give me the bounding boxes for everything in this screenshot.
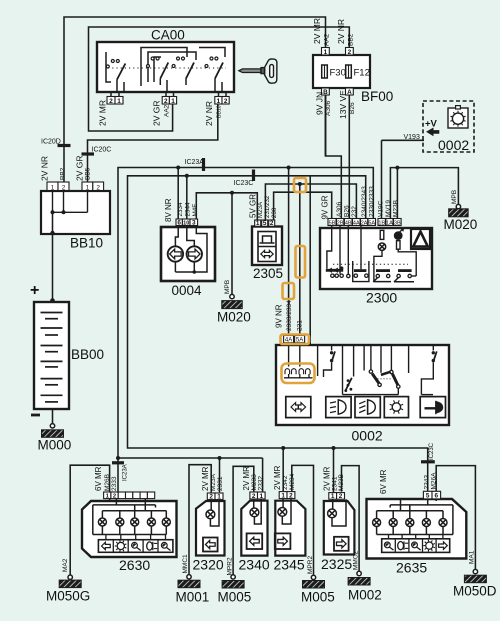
svg-text:BF00: BF00 <box>361 89 393 104</box>
svg-text:+V: +V <box>425 119 438 130</box>
svg-text:2V GR: 2V GR <box>152 100 162 126</box>
svg-text:MPR2: MPR2 <box>307 556 314 574</box>
svg-text:5B: 5B <box>329 220 336 226</box>
svg-text:BB5: BB5 <box>85 167 92 180</box>
svg-text:2334: 2334 <box>177 202 184 217</box>
svg-text:MV19: MV19 <box>385 200 392 217</box>
svg-text:2635: 2635 <box>396 560 427 576</box>
svg-text:8V NR: 8V NR <box>164 198 173 222</box>
svg-text:MA2: MA2 <box>62 558 69 572</box>
svg-text:B26: B26 <box>344 205 351 217</box>
svg-text:IC23C: IC23C <box>234 180 254 187</box>
svg-text:2B: 2B <box>337 220 344 226</box>
svg-text:2320: 2320 <box>193 557 224 573</box>
svg-text:M23B: M23B <box>393 200 400 217</box>
svg-text:M050G: M050G <box>46 589 90 604</box>
svg-text:5A: 5A <box>368 220 375 226</box>
svg-text:2A: 2A <box>361 220 368 226</box>
svg-text:M020: M020 <box>217 310 251 325</box>
svg-text:232: 232 <box>351 206 358 217</box>
svg-text:6V MR: 6V MR <box>379 469 388 494</box>
svg-text:231: 231 <box>297 320 304 331</box>
svg-text:5: 5 <box>263 220 267 227</box>
svg-text:V19C: V19C <box>378 200 385 217</box>
svg-text:M050D: M050D <box>453 584 497 599</box>
svg-text:6: 6 <box>177 219 181 226</box>
svg-text:M26A: M26A <box>431 472 438 490</box>
svg-text:2325: 2325 <box>321 556 352 572</box>
svg-text:231/232: 231/232 <box>264 195 271 218</box>
svg-text:1: 1 <box>217 98 221 105</box>
svg-text:2333/2334: 2333/2334 <box>286 300 293 331</box>
svg-text:2: 2 <box>96 184 100 191</box>
svg-text:2343: 2343 <box>424 475 431 490</box>
svg-text:1: 1 <box>281 492 285 499</box>
svg-text:2: 2 <box>289 492 293 499</box>
svg-text:+: + <box>30 282 39 299</box>
svg-text:6V MR: 6V MR <box>94 466 103 491</box>
svg-text:MPB: MPB <box>224 280 231 294</box>
svg-text:9V NR: 9V NR <box>275 304 284 328</box>
svg-text:IC20D: IC20D <box>41 139 61 146</box>
svg-text:0004: 0004 <box>172 283 203 298</box>
svg-text:2V GR: 2V GR <box>75 155 85 181</box>
svg-text:2: 2 <box>270 220 274 227</box>
svg-text:M23A: M23A <box>257 201 264 218</box>
svg-text:2331: 2331 <box>217 476 224 491</box>
svg-text:2: 2 <box>109 98 113 105</box>
svg-text:BB2: BB2 <box>348 33 355 46</box>
svg-text:1: 1 <box>256 220 260 227</box>
svg-text:BB2: BB2 <box>60 167 67 180</box>
svg-text:4A: 4A <box>353 220 360 226</box>
svg-text:2V NR: 2V NR <box>336 19 346 44</box>
svg-text:6: 6 <box>435 493 439 500</box>
svg-text:IC23A: IC23A <box>185 159 205 166</box>
svg-text:5: 5 <box>426 493 430 500</box>
svg-text:2: 2 <box>348 49 352 56</box>
svg-text:IC20C: IC20C <box>92 147 112 154</box>
svg-text:MMC1: MMC1 <box>182 554 189 574</box>
svg-text:A306: A306 <box>336 201 343 217</box>
svg-text:2: 2 <box>164 98 168 105</box>
svg-text:1: 1 <box>260 493 264 500</box>
svg-text:2V MR: 2V MR <box>98 100 108 126</box>
svg-text:9V GR: 9V GR <box>321 195 330 219</box>
svg-text:2630: 2630 <box>119 557 150 573</box>
svg-text:MPB: MPB <box>451 190 458 204</box>
svg-text:2332: 2332 <box>258 476 265 491</box>
svg-text:1: 1 <box>86 184 90 191</box>
svg-text:IC23C: IC23C <box>429 442 435 460</box>
svg-text:2V MR: 2V MR <box>201 466 210 491</box>
svg-text:10: 10 <box>183 220 189 226</box>
svg-text:F30: F30 <box>330 68 346 79</box>
svg-text:2V MR: 2V MR <box>242 466 251 491</box>
svg-text:M234: M234 <box>289 473 296 490</box>
svg-text:1: 1 <box>171 98 175 105</box>
svg-text:MA1: MA1 <box>469 550 476 564</box>
svg-text:BB10: BB10 <box>217 105 223 118</box>
svg-text:2: 2 <box>62 184 66 191</box>
svg-text:3: 3 <box>192 219 196 226</box>
svg-text:F12: F12 <box>354 68 370 79</box>
svg-text:2345: 2345 <box>274 557 305 573</box>
svg-text:2V MR: 2V MR <box>323 466 332 491</box>
svg-text:BB00: BB00 <box>71 347 104 362</box>
svg-text:M005: M005 <box>218 590 252 605</box>
svg-text:1A: 1A <box>386 220 393 226</box>
svg-text:M000: M000 <box>38 438 72 453</box>
svg-text:M002: M002 <box>348 588 382 603</box>
svg-text:2300: 2300 <box>366 290 397 306</box>
svg-text:2: 2 <box>252 493 256 500</box>
svg-text:230: 230 <box>271 207 278 218</box>
svg-text:2V NR: 2V NR <box>204 101 214 126</box>
svg-text:2340: 2340 <box>239 557 270 573</box>
svg-text:2V MR: 2V MR <box>273 465 282 490</box>
svg-text:2305: 2305 <box>253 266 283 281</box>
svg-text:2: 2 <box>113 493 116 499</box>
svg-text:13V VE: 13V VE <box>338 90 348 119</box>
svg-text:1: 1 <box>324 49 328 56</box>
svg-text:1: 1 <box>331 493 335 500</box>
svg-text:MPR2: MPR2 <box>226 557 233 575</box>
svg-text:1B: 1B <box>378 220 385 226</box>
svg-text:M23B: M23B <box>338 474 345 491</box>
svg-text:2344: 2344 <box>185 202 192 217</box>
svg-text:M020: M020 <box>444 217 478 232</box>
svg-text:1: 1 <box>217 493 221 500</box>
svg-text:2: 2 <box>209 493 213 500</box>
svg-text:1: 1 <box>117 98 121 105</box>
svg-text:2V MR: 2V MR <box>312 18 322 44</box>
svg-text:2: 2 <box>339 493 343 500</box>
svg-text:IC23A: IC23A <box>123 464 129 481</box>
svg-text:4B: 4B <box>345 220 352 226</box>
svg-text:M4E: M4E <box>192 204 199 217</box>
svg-text:2: 2 <box>224 98 228 105</box>
svg-text:BB10: BB10 <box>70 236 103 251</box>
svg-text:AA2: AA2 <box>324 33 331 46</box>
svg-text:1: 1 <box>51 184 55 191</box>
svg-text:3B: 3B <box>394 220 401 226</box>
svg-text:2330/2333: 2330/2333 <box>369 186 376 217</box>
svg-text:M005: M005 <box>301 590 335 605</box>
svg-text:0002: 0002 <box>352 428 383 444</box>
svg-text:2342: 2342 <box>282 475 289 490</box>
svg-text:AA2: AA2 <box>164 104 171 117</box>
svg-text:2340/2343: 2340/2343 <box>361 186 368 217</box>
svg-text:0002: 0002 <box>438 137 469 153</box>
svg-text:M001: M001 <box>176 590 210 605</box>
svg-text:CA00: CA00 <box>151 28 185 43</box>
svg-text:2333: 2333 <box>111 476 118 491</box>
svg-text:9V JN: 9V JN <box>315 92 325 115</box>
svg-text:2V NR: 2V NR <box>40 156 50 181</box>
